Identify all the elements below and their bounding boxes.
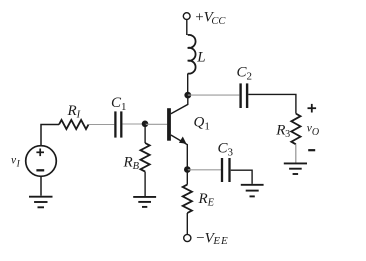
resistor RB — [141, 143, 150, 172]
wire source bottom to ground — [40, 176, 42, 195]
resistor R3 — [291, 114, 300, 145]
capacitor C2 — [241, 83, 248, 108]
wire emitter node to RE — [186, 170, 188, 185]
wire R3 to ground — [295, 144, 297, 162]
plus sign (vO) — [308, 104, 317, 113]
terminal -VEE — [184, 234, 191, 241]
voltage source vI — [26, 146, 57, 177]
ground (source) — [29, 197, 53, 208]
node emitter junction — [184, 166, 191, 173]
ground (R3) — [284, 163, 307, 174]
wire collector node to C2 — [188, 94, 240, 96]
svg-text:L: L — [196, 50, 205, 66]
wire RE to VEE terminal — [186, 213, 188, 234]
wire C2 to R3 — [248, 94, 296, 113]
wire C1 to base node — [123, 123, 146, 125]
wire C3 to ground — [231, 170, 252, 184]
resistor RI — [59, 120, 89, 129]
capacitor C1 — [115, 111, 121, 137]
wire source top to RI — [41, 125, 59, 146]
wire base node to Q1 base — [145, 123, 167, 125]
wire base node down to RB — [144, 124, 146, 143]
ground (RB) — [133, 197, 156, 207]
terminal +VCC — [183, 13, 190, 20]
minus sign (vO) — [308, 149, 315, 151]
wire RB to ground — [144, 172, 146, 196]
resistor RE — [183, 185, 192, 213]
inductor L — [188, 35, 196, 74]
transistor Q1 — [167, 95, 188, 169]
capacitor C3 — [222, 158, 230, 182]
node base junction — [142, 121, 149, 128]
wire L to collector node — [187, 74, 189, 96]
ground (C3) — [241, 185, 264, 197]
wire emitter node to C3 — [187, 169, 221, 171]
wire VCC terminal to L — [186, 20, 188, 35]
node collector junction — [184, 92, 191, 99]
wire RI to C1 — [89, 124, 115, 126]
